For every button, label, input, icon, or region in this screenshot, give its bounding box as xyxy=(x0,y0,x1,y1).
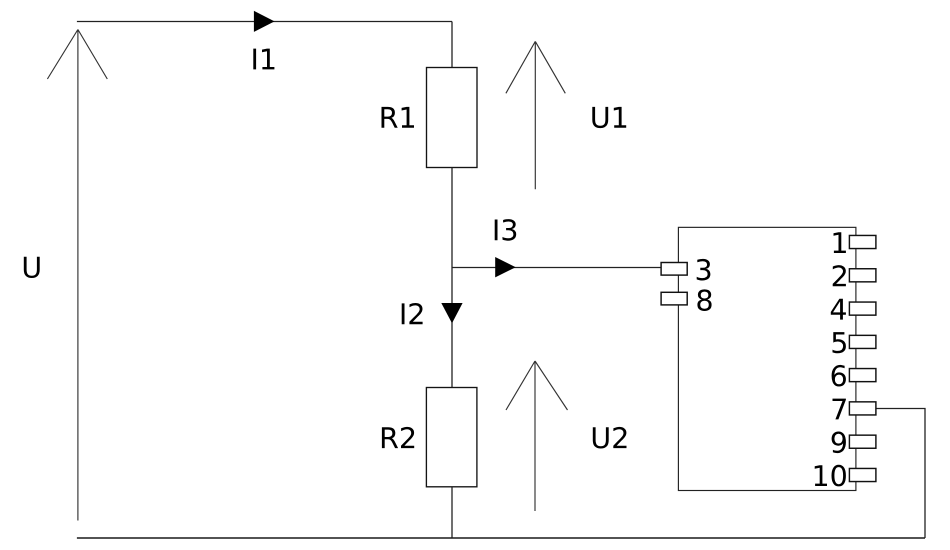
label U1 xyxy=(592,107,626,128)
wire below R2 xyxy=(451,487,453,538)
pin 3 box xyxy=(661,263,687,276)
pin 2 box xyxy=(849,269,876,282)
bottom rail wire xyxy=(77,537,925,539)
resistor R2 xyxy=(426,388,477,487)
pin 8 box xyxy=(661,292,687,305)
pin 10 box xyxy=(849,468,876,481)
IC box xyxy=(678,227,856,490)
wire from top corner into R1 xyxy=(451,22,453,68)
label I1 xyxy=(253,49,274,70)
pin 1 label xyxy=(834,232,846,253)
pin 1 box xyxy=(849,235,876,248)
label R1 xyxy=(382,107,415,128)
pin 6 box xyxy=(849,369,876,382)
pin 7 label xyxy=(833,399,846,420)
current arrow I2 xyxy=(441,303,462,323)
voltage arrow U1 xyxy=(506,41,565,189)
label I2 xyxy=(402,303,423,324)
pin 2 label xyxy=(833,265,846,286)
label R2 xyxy=(382,427,414,448)
label U xyxy=(24,257,40,278)
pin 4 label xyxy=(831,299,846,320)
pin 3 label xyxy=(697,259,711,281)
pin 6 label xyxy=(832,365,846,387)
label U2 xyxy=(593,427,627,449)
pin 10 label xyxy=(815,465,846,487)
wire middle vertical R1 to R2 xyxy=(451,168,453,388)
pin 4 box xyxy=(849,302,876,315)
pin 9 box xyxy=(849,435,876,448)
voltage source arrow U (open arrowhead) xyxy=(47,30,107,521)
wire from pin 7 to bottom rail xyxy=(876,409,925,539)
pin 7 box xyxy=(849,402,876,415)
current arrow I1 xyxy=(254,11,275,32)
voltage arrow U2 xyxy=(506,361,568,511)
wire top horizontal xyxy=(77,21,452,23)
current arrow I3 xyxy=(495,257,516,277)
node junction wire to IC pin 3 xyxy=(452,267,661,269)
pin 8 label xyxy=(697,289,711,311)
label I3 xyxy=(495,219,517,241)
resistor R1 xyxy=(427,68,478,168)
pin 9 label xyxy=(832,432,846,454)
pin 5 label xyxy=(833,332,846,353)
pin 5 box xyxy=(849,335,876,348)
